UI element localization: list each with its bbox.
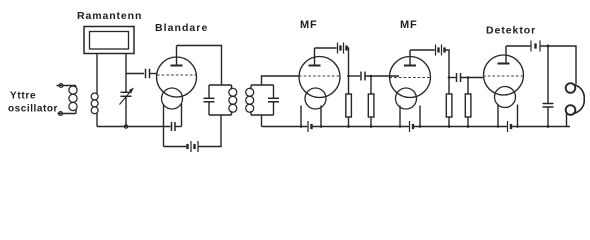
svg-text:Detektor: Detektor (486, 25, 536, 37)
svg-text:Yttre: Yttre (10, 91, 36, 102)
svg-text:MF: MF (300, 19, 317, 31)
svg-text:Ramantenn: Ramantenn (77, 10, 142, 22)
svg-text:oscillator: oscillator (8, 104, 58, 115)
svg-text:Blandare: Blandare (155, 22, 208, 34)
svg-text:MF: MF (400, 19, 417, 31)
